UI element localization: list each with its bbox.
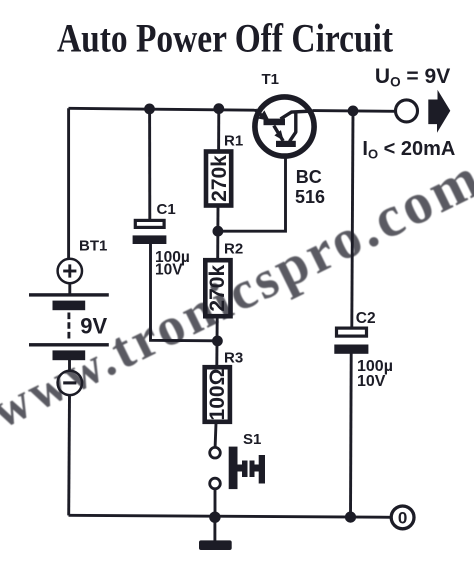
capacitor C2 top plate (337, 328, 367, 336)
wire BT1 plus to plate (68, 283, 71, 294)
transistor T1 base bar lower (276, 141, 296, 147)
wire top rail left (69, 108, 257, 110)
battery BT1 plus terminal circle (58, 259, 82, 283)
wire R2 bottom to R3 top (215, 318, 218, 367)
capacitor C2 bottom plate (334, 345, 368, 354)
node: rail-C2 junction (348, 106, 359, 117)
wire C2 bottom to rail (349, 353, 353, 517)
svg-text:100Ω: 100Ω (206, 369, 229, 421)
output arrow (428, 90, 450, 133)
svg-text:10V: 10V (155, 262, 183, 279)
resistor R3 body (205, 367, 230, 422)
capacitor C1 bottom plate (133, 235, 167, 244)
ground bar (199, 540, 232, 550)
transistor T1 circle (255, 97, 314, 156)
svg-text:R2: R2 (224, 241, 243, 258)
resistor R1 body (206, 152, 231, 206)
wire S1 bottom to rail (214, 489, 217, 517)
svg-text:T1: T1 (262, 71, 280, 88)
node: rail-R1 junction (213, 103, 224, 114)
wire C1 bottom to R2/R3 junction (151, 244, 218, 341)
wire ground stub (213, 517, 216, 541)
svg-text:10V: 10V (357, 373, 386, 390)
transistor T1 interior (255, 110, 313, 142)
node: R1/R2 junction (213, 226, 224, 237)
node: bottom rail S1 junction (209, 512, 220, 523)
svg-text:C1: C1 (157, 201, 176, 218)
switch S1 contact top (210, 447, 221, 458)
switch S1 plunger left nub (238, 465, 244, 472)
terminal 0 circle (391, 506, 414, 529)
transistor T1 emitter arrow upper (258, 110, 269, 120)
svg-text:Auto Power Off Circuit: Auto Power Off Circuit (57, 16, 394, 61)
wire C1 top stub (148, 109, 151, 220)
wire transistor base to R1/R2 junction (218, 146, 286, 232)
node: bottom rail C2 junction (345, 511, 356, 522)
wire R1 bottom to R2 top (216, 207, 219, 260)
output terminal Uo circle (396, 100, 418, 122)
svg-text:270k: 270k (208, 155, 231, 202)
battery cell 2 long plate (29, 343, 109, 346)
watermark www.tronicspro.com (0, 144, 474, 441)
svg-text:UO = 9V: UO = 9V (375, 65, 450, 90)
battery dashed link (67, 313, 70, 342)
wire BT1 bar2 to minus circle (68, 360, 71, 372)
switch S1 contact bottom (210, 478, 221, 489)
battery cell 1 short thick plate (53, 301, 86, 311)
battery BT1 minus terminal circle (58, 371, 82, 395)
svg-text:C2: C2 (356, 310, 376, 327)
resistor R2 body (205, 260, 230, 316)
svg-text:R3: R3 (224, 350, 243, 367)
svg-text:516: 516 (295, 187, 325, 207)
wire left vertical lower (BT1 minus to bottom rail) (67, 395, 71, 516)
svg-text:0: 0 (398, 509, 407, 528)
capacitor C1 top plate (135, 220, 164, 227)
switch S1 plunger right nub (250, 461, 255, 478)
battery cell 1 long plate (29, 293, 109, 296)
switch S1 actuator bar (229, 447, 238, 490)
switch S1 cap bar (259, 455, 265, 484)
wire left vertical upper (rail to BT1 plus) (67, 108, 70, 259)
svg-text:BC: BC (296, 167, 322, 187)
wire R3 bottom to S1 (214, 423, 218, 448)
transistor T1 emitter arrow lower (274, 130, 283, 141)
svg-text:BT1: BT1 (79, 237, 107, 254)
wire bottom rail (69, 515, 393, 517)
transistor T1 base bar upper (264, 119, 286, 126)
svg-text:S1: S1 (243, 431, 261, 448)
wire top rail right (313, 109, 397, 113)
node: R2/R3 junction (212, 336, 223, 347)
battery cell 2 short thick plate (53, 350, 86, 360)
wire R1 top stub (217, 109, 220, 151)
node: rail-C1 junction (144, 104, 155, 115)
svg-text:R1: R1 (224, 133, 243, 150)
wire C2 top stub (352, 111, 353, 328)
